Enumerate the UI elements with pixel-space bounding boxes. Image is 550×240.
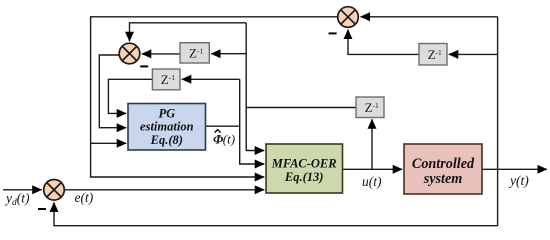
svg-text:y(t): y(t) bbox=[508, 173, 529, 188]
block Controlled system bbox=[404, 144, 482, 194]
wire yd(t) input bbox=[3, 189, 42, 191]
svg-text:(t): (t) bbox=[223, 132, 235, 147]
wire Z1 output into summer 1 right bbox=[142, 53, 180, 55]
block MFAC-OER Eq.(13) bbox=[266, 144, 343, 193]
delay block Z4 bbox=[356, 97, 384, 118]
svg-text:Eq.(8): Eq.(8) bbox=[150, 133, 183, 147]
delay block Z2 bbox=[152, 69, 180, 90]
minus sign near summer 1 bbox=[140, 65, 148, 67]
svg-text:Controlled: Controlled bbox=[412, 156, 475, 172]
wire y(t) into Z3 input bbox=[449, 53, 498, 55]
wire Z3 output up into summer 3 bottom bbox=[348, 30, 419, 55]
wire right vertical y(t) branch bbox=[497, 17, 499, 226]
svg-text:u(t): u(t) bbox=[362, 174, 382, 189]
wire u(t) from MFAC to Controlled system bbox=[343, 168, 403, 170]
wire y(t) output bbox=[482, 168, 547, 170]
svg-text:estimation: estimation bbox=[140, 120, 194, 134]
wire u(t) branch up into Z4 input bbox=[371, 119, 373, 169]
wire bus R into Z1 input bbox=[211, 53, 246, 55]
wire Δy(t) top line from summer 3 to left bus and down bbox=[91, 17, 338, 177]
wire bus R down to MFAC input 1 bbox=[246, 23, 264, 151]
minus sign near summer 3 bbox=[329, 32, 337, 34]
wire Z2 output to PG input 1 bbox=[108, 79, 152, 113]
minus sign near summer 2 bbox=[38, 208, 46, 210]
delay block Z3 bbox=[419, 44, 447, 66]
wire Z4 output to bus R bbox=[246, 107, 356, 109]
wire bus L into Z2 input bbox=[182, 78, 240, 80]
svg-text:e(t): e(t) bbox=[75, 190, 94, 205]
wire e(t) from summer 2 to MFAC input 4 bbox=[65, 189, 265, 191]
wire bus L down to MFAC input 2 bbox=[240, 79, 265, 164]
delay block Z1 bbox=[180, 43, 209, 63]
wire branch into PG input 3 bbox=[91, 142, 127, 144]
wire summer 1 output to PG input 2 bbox=[99, 55, 126, 128]
svg-text:system: system bbox=[423, 171, 463, 187]
block PG estimation Eq.(8) bbox=[128, 104, 206, 151]
svg-text:PG: PG bbox=[158, 107, 175, 121]
wire bottom feedback into summer 2 bbox=[54, 202, 498, 225]
svg-text:MFAC-OER: MFAC-OER bbox=[271, 157, 337, 171]
summing junction 3 (Δy) bbox=[338, 7, 359, 28]
wire y(t) feedback into summer 3 right bbox=[361, 16, 498, 18]
svg-text:Eq.(13): Eq.(13) bbox=[284, 170, 324, 184]
svg-text:yd(t): yd(t) bbox=[4, 191, 30, 209]
wire PG output phi-hat to bus L bbox=[206, 125, 240, 127]
wire u(t-1) from bus R down into summer 1 top bbox=[130, 23, 247, 41]
summing junction 2 (error) bbox=[44, 180, 65, 201]
summing junction 1 (Δu) bbox=[119, 43, 140, 64]
